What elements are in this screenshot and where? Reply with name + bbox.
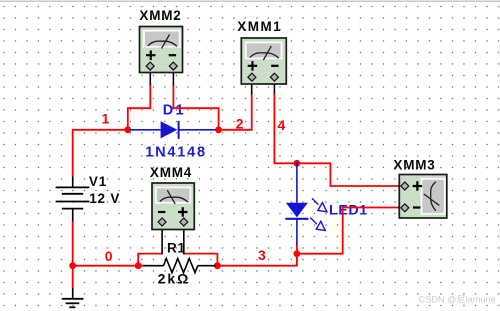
junction R1 left [135, 262, 142, 269]
wire net1 branch to XMM2 + terminal [128, 85, 151, 131]
XMM3 - terminal black stub [398, 207, 404, 209]
svg-text:0: 0 [105, 248, 113, 264]
wire net3: junction down to bottom rail, left to R1 right [217, 254, 297, 266]
wire net3 branch: R1 right junction up-left to XMM4 + terminal [183, 254, 217, 267]
wire net0: battery - lead down to bottom rail [72, 221, 74, 267]
wire net0 branch: R1 left junction up-right to XMM4 - terminal [138, 254, 162, 267]
top window edge [0, 1, 500, 2]
svg-text:XMM4: XMM4 [150, 165, 192, 180]
ground [62, 288, 84, 307]
svg-text:1N4148: 1N4148 [145, 144, 207, 160]
wire net2: diode cathode to XMM1 + terminal [215, 94, 252, 130]
junction node 4 / LED anode [294, 160, 301, 167]
multimeter XMM3 [399, 175, 447, 219]
LED1 [285, 162, 327, 245]
multimeter XMM2 [140, 27, 183, 73]
svg-text:CSDN @尼lamune: CSDN @尼lamune [419, 294, 496, 304]
resistor R1 [144, 259, 216, 273]
XMM3 + terminal black stub [398, 185, 404, 187]
XMM2 - terminal black stub [172, 66, 174, 85]
wire net3: junction right to XMM3 - terminal [297, 208, 400, 254]
XMM4 - terminal black stub [161, 225, 163, 254]
svg-text:XMM2: XMM2 [139, 8, 181, 23]
XMM1 + terminal black stub [251, 77, 253, 94]
svg-text:XMM3: XMM3 [393, 158, 435, 173]
emission arrow upper [312, 198, 327, 212]
emission arrow lower [310, 218, 325, 231]
battery V1 [56, 177, 90, 222]
svg-text:4: 4 [278, 117, 286, 133]
wire net0: bottom rail from ground junction to R1 left [73, 265, 146, 267]
diode D1 [129, 121, 216, 139]
XMM2 + terminal black stub [149, 66, 151, 85]
junction node 1 [124, 126, 131, 133]
junction ground [69, 262, 76, 269]
wire net3: red bit right of R1 [216, 265, 218, 267]
svg-text:2: 2 [236, 115, 244, 131]
junction node 2 [215, 126, 222, 133]
wire net3: LED cathode lead bottom red [296, 244, 298, 255]
multimeter XMM1 [241, 38, 286, 84]
wire net4: XMM1 - terminal down, right to XMM3 + terminal [274, 94, 399, 187]
svg-text:LED1: LED1 [329, 201, 368, 217]
XMM4 + terminal black stub [183, 225, 185, 254]
svg-text:2kΩ: 2kΩ [158, 271, 191, 287]
XMM1 - terminal black stub [273, 77, 275, 94]
svg-text:V1: V1 [89, 174, 107, 189]
svg-text:XMM1: XMM1 [237, 19, 282, 34]
wire net0: junction down to ground [72, 266, 74, 289]
svg-text:1: 1 [102, 110, 110, 126]
junction R1 right [214, 262, 221, 269]
svg-text:3: 3 [258, 247, 266, 263]
wire net2: XMM2 - terminal down and right to diode cathode [173, 85, 218, 131]
svg-text:12 V: 12 V [89, 191, 120, 206]
wire net1: battery+ up and right to diode anode [73, 130, 129, 177]
svg-text:R1: R1 [167, 240, 186, 255]
junction node 3 lower [294, 250, 301, 257]
multimeter XMM4 [152, 183, 194, 230]
